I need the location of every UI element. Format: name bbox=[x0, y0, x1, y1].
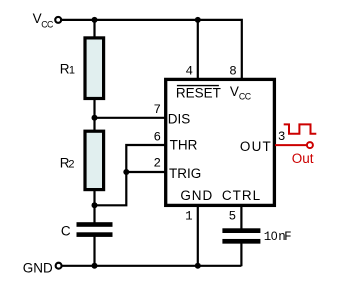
svg-text:F: F bbox=[284, 230, 292, 244]
svg-text:7: 7 bbox=[153, 103, 161, 117]
capacitor C plate bottom bbox=[77, 232, 113, 237]
capacitor C2 plate bottom bbox=[222, 239, 260, 244]
node junction R1 R2 DIS bbox=[92, 115, 98, 121]
svg-text:CTRL: CTRL bbox=[222, 188, 261, 203]
wire THR pin6 bbox=[95, 145, 166, 205]
node junction rail pin1 bbox=[195, 263, 201, 269]
node junction TRIG bbox=[123, 169, 129, 175]
svg-text:1: 1 bbox=[69, 65, 75, 77]
Out terminal bbox=[307, 142, 313, 148]
capacitor C plate top bbox=[77, 222, 113, 227]
node junction R2 C THR bbox=[92, 202, 98, 208]
svg-text:8: 8 bbox=[229, 65, 237, 79]
node junction top rail pin4 bbox=[195, 17, 201, 23]
svg-text:OUT: OUT bbox=[240, 139, 272, 154]
wire R1 to node bbox=[93, 99, 95, 118]
svg-text:5: 5 bbox=[229, 210, 237, 224]
node junction rail C bbox=[92, 263, 98, 269]
wire OUT pin3 bbox=[275, 144, 307, 146]
svg-text:6: 6 bbox=[153, 131, 161, 145]
svg-text:2: 2 bbox=[68, 158, 74, 170]
svg-text:CC: CC bbox=[41, 20, 54, 30]
wire pin5 CTRL bbox=[240, 205, 242, 230]
wire C2 to rail bbox=[240, 243, 242, 267]
wire R2 to node bbox=[93, 190, 95, 205]
svg-text:DIS: DIS bbox=[168, 111, 191, 126]
resistor R2 bbox=[85, 131, 104, 189]
svg-text:Out: Out bbox=[292, 151, 314, 166]
GND terminal bbox=[56, 263, 62, 269]
wire DIS pin7 bbox=[95, 117, 166, 119]
capacitor C2 plate top bbox=[222, 228, 260, 233]
wire pin4 to rail bbox=[197, 20, 199, 79]
svg-text:GND: GND bbox=[23, 260, 53, 275]
Vcc terminal bbox=[55, 17, 61, 23]
svg-text:V: V bbox=[230, 84, 239, 99]
wire pin1 GND bbox=[197, 205, 199, 266]
svg-text:RESET: RESET bbox=[176, 86, 221, 101]
wire node to R2 bbox=[93, 118, 95, 132]
svg-text:4: 4 bbox=[185, 65, 193, 79]
square wave symbol bbox=[284, 124, 317, 133]
svg-text:THR: THR bbox=[170, 138, 198, 153]
pin label RESET overline bbox=[177, 85, 219, 87]
svg-text:3: 3 bbox=[278, 130, 286, 144]
wire rail to R1 bbox=[93, 20, 95, 39]
svg-text:0: 0 bbox=[271, 229, 278, 243]
wire TRIG pin2 bbox=[126, 171, 166, 173]
wire node to C bbox=[93, 205, 95, 223]
IC U1 555 timer body bbox=[166, 79, 275, 205]
wire top rail Vcc bbox=[62, 20, 242, 79]
svg-text:GND: GND bbox=[180, 188, 213, 203]
wire bottom rail GND bbox=[62, 265, 242, 267]
svg-text:C: C bbox=[61, 224, 71, 239]
svg-text:1: 1 bbox=[185, 210, 193, 224]
svg-text:CC: CC bbox=[239, 91, 252, 101]
svg-text:2: 2 bbox=[153, 157, 161, 171]
svg-text:TRIG: TRIG bbox=[169, 166, 201, 181]
resistor R1 bbox=[85, 38, 104, 99]
wire C to rail bbox=[93, 236, 95, 266]
node junction top rail R1 bbox=[92, 17, 98, 23]
